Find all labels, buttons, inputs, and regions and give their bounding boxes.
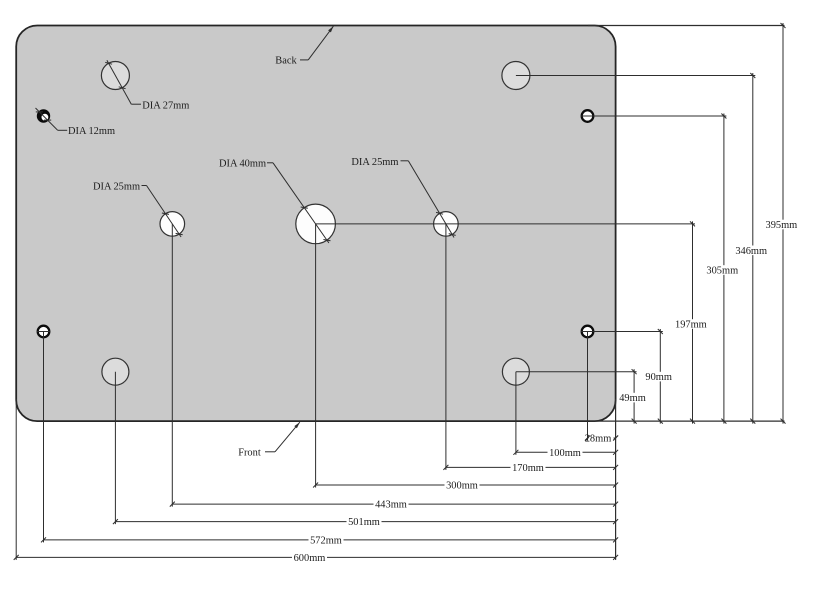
svg-text:600mm: 600mm xyxy=(294,553,326,564)
label DIA 12mm xyxy=(68,126,115,137)
dimension line 170mm horizontal xyxy=(443,465,618,470)
leader DIA 40mm xyxy=(267,163,331,243)
hole small bottom-left xyxy=(38,326,50,338)
hole DIA 25mm right xyxy=(434,212,459,237)
svg-text:90mm: 90mm xyxy=(645,372,672,383)
svg-text:Front: Front xyxy=(238,447,261,458)
svg-text:DIA 40mm: DIA 40mm xyxy=(219,158,266,169)
dimension line 197mm vertical xyxy=(690,221,695,423)
extension line left edge down to 600mm xyxy=(15,399,17,560)
hole bottom-left 27mm xyxy=(102,358,129,385)
svg-text:Back: Back xyxy=(275,56,297,67)
extension line top-right hole to 346mm xyxy=(516,75,755,77)
label 170mm xyxy=(511,463,546,473)
label Back xyxy=(275,56,297,67)
plate outline xyxy=(16,26,615,422)
leader DIA 25mm left xyxy=(142,186,183,238)
extension line bottom-left hole down to 501mm xyxy=(114,372,116,524)
svg-text:DIA 25mm: DIA 25mm xyxy=(93,181,140,192)
svg-text:300mm: 300mm xyxy=(446,481,478,492)
extension line DIA40 row to 197mm xyxy=(316,223,695,225)
label 197mm xyxy=(673,319,708,329)
leader DIA 25mm right xyxy=(401,161,456,238)
label Front xyxy=(238,447,261,458)
label 28mm xyxy=(589,433,614,443)
dimension line 600mm horizontal xyxy=(14,555,618,560)
label 49mm xyxy=(618,393,647,403)
svg-text:443mm: 443mm xyxy=(375,500,407,511)
extension line top edge to 395mm xyxy=(588,25,785,27)
label DIA 40mm xyxy=(219,158,266,169)
dimension line 90mm vertical xyxy=(658,329,663,424)
svg-text:572mm: 572mm xyxy=(310,536,342,547)
label 305mm xyxy=(705,265,740,275)
center line small hole bottom-left xyxy=(37,331,51,333)
leader Front label arrow xyxy=(265,422,300,452)
extension line DIA25-right down to 170mm xyxy=(445,224,447,470)
dimension line 28mm horizontal xyxy=(585,436,618,441)
hole top-left DIA 27mm xyxy=(101,62,129,90)
hole DIA 40mm center xyxy=(296,204,336,244)
dimension line 100mm horizontal xyxy=(513,450,618,455)
dimension line 443mm horizontal xyxy=(170,502,618,507)
svg-text:501mm: 501mm xyxy=(348,517,380,528)
label 100mm xyxy=(548,448,583,458)
svg-text:395mm: 395mm xyxy=(766,220,798,231)
extension line small top-right hole to 305mm xyxy=(581,115,727,117)
label 90mm xyxy=(644,372,673,382)
svg-text:DIA 12mm: DIA 12mm xyxy=(68,126,115,137)
svg-text:28mm: 28mm xyxy=(585,434,612,445)
label 600mm xyxy=(292,553,327,563)
label 501mm xyxy=(347,517,382,527)
label 300mm xyxy=(445,480,480,490)
hole small bottom-right xyxy=(582,326,594,338)
extension line DIA25-left down to 443mm xyxy=(171,224,173,507)
svg-text:49mm: 49mm xyxy=(619,393,646,404)
label DIA 27mm xyxy=(142,100,189,111)
extension line small bottom-right hole to 90mm xyxy=(581,331,663,333)
extension line DIA40 down to 300mm xyxy=(315,224,317,488)
svg-text:346mm: 346mm xyxy=(735,246,767,257)
hole top-right 27mm xyxy=(502,62,530,90)
leader DIA 12mm xyxy=(36,108,68,130)
leader DIA 27mm xyxy=(105,60,141,104)
dimension line 395mm vertical xyxy=(781,23,786,424)
dimension line 346mm vertical xyxy=(750,73,755,424)
baseline right edge extended down xyxy=(615,399,617,560)
extension line small bottom-right hole down to 28mm xyxy=(587,332,589,441)
label 443mm xyxy=(374,499,409,509)
baseline bottom edge extended right xyxy=(590,420,785,422)
svg-text:170mm: 170mm xyxy=(512,463,544,474)
leader Back label arrow xyxy=(300,26,333,60)
svg-text:197mm: 197mm xyxy=(675,320,707,331)
hole small top-right xyxy=(582,110,594,122)
svg-text:305mm: 305mm xyxy=(706,266,738,277)
svg-text:100mm: 100mm xyxy=(549,448,581,459)
hole DIA 25mm left xyxy=(160,212,185,237)
label DIA 25mm left xyxy=(93,181,140,192)
dimension line 305mm vertical xyxy=(721,114,726,424)
dimension line 572mm horizontal xyxy=(41,537,618,542)
extension line bottom-right hole down to 100mm xyxy=(515,372,517,455)
dimension line 501mm horizontal xyxy=(113,519,618,524)
label 572mm xyxy=(309,535,344,545)
hole bottom-right 27mm xyxy=(502,358,529,385)
label 395mm xyxy=(764,220,799,230)
label 346mm xyxy=(734,246,769,256)
hole DIA 12mm top-left xyxy=(37,109,50,122)
label DIA 25mm right xyxy=(351,157,398,168)
extension line small bottom-left hole down to 572mm xyxy=(43,332,45,543)
svg-text:DIA 25mm: DIA 25mm xyxy=(351,157,398,168)
dimension line 49mm vertical xyxy=(632,369,637,423)
dimension line 300mm horizontal xyxy=(313,483,618,488)
svg-text:DIA 27mm: DIA 27mm xyxy=(142,100,189,111)
extension line bottom-right hole to 49mm xyxy=(516,371,637,373)
